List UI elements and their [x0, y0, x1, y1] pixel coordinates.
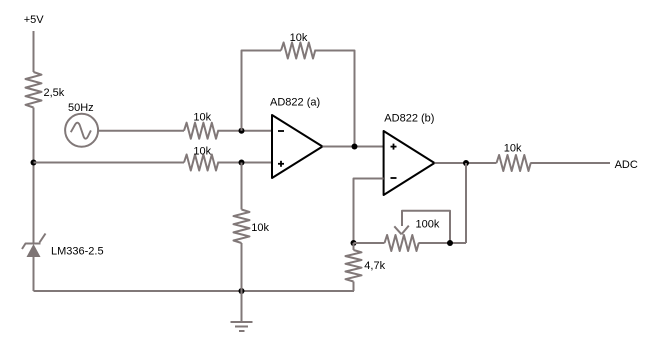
- svg-text:LM336-2.5: LM336-2.5: [51, 245, 104, 257]
- wire left rail: resistor bottom to diode: [33, 108, 35, 243]
- svg-text:10k: 10k: [504, 142, 522, 154]
- svg-text:50Hz: 50Hz: [68, 102, 94, 114]
- svg-text:2,5k: 2,5k: [44, 87, 65, 99]
- wire R2 to op-amp minus input: [217, 130, 272, 132]
- node junction left rail / plus-input wire: [31, 160, 37, 166]
- op-amp U1a minus input symbol: [278, 130, 284, 132]
- op-amp U1b triangle: [384, 131, 435, 195]
- svg-text:10k: 10k: [193, 112, 211, 124]
- wire pot right side: [418, 242, 466, 244]
- wire R7 top stub: [353, 243, 355, 250]
- wire pot wiper to right terminal (box): [402, 211, 450, 243]
- wire R8 to ADC: [530, 162, 610, 164]
- wire U1a output to U1b plus input: [323, 146, 384, 148]
- node junction minus input / feedback: [239, 128, 245, 134]
- svg-text:AD822 (b): AD822 (b): [384, 113, 434, 125]
- potentiometer R6 100k (horizontal): [385, 235, 419, 251]
- op-amp U1a triangle: [272, 115, 323, 178]
- wire node to pot: [354, 242, 385, 244]
- op-amp U1b minus input symbol: [391, 177, 397, 179]
- wire U1b minus input L: [354, 179, 384, 244]
- node junction pot right / wiper: [447, 240, 453, 246]
- node junction U1a output / feedback: [352, 144, 358, 150]
- wire ground bus: [34, 290, 355, 292]
- resistor R3 10k (bottom input, horizontal): [184, 155, 218, 171]
- ground symbol: [231, 291, 253, 331]
- node junction output / feedback down: [463, 160, 469, 166]
- wire feedback left vertical: [242, 51, 282, 131]
- wire source to R2: [98, 130, 184, 132]
- svg-text:4,7k: 4,7k: [364, 260, 385, 272]
- wire R7 bottom to ground bus: [353, 282, 355, 292]
- wire R4 top: [241, 163, 243, 210]
- node junction minus-feedback / pot / 4,7k: [351, 240, 357, 246]
- wire feedback down from output: [465, 163, 467, 243]
- op-amp U1b plus input symbol: [391, 144, 397, 150]
- resistor R5 10k (feedback, horizontal): [281, 43, 315, 59]
- svg-text:+5V: +5V: [24, 14, 45, 26]
- node ground junction: [239, 288, 245, 294]
- node junction plus input / R4: [239, 160, 245, 166]
- source V1 sine symbol: [71, 123, 91, 139]
- resistor R7 4,7k (vertical): [346, 250, 362, 281]
- svg-text:10k: 10k: [251, 222, 269, 234]
- wire plus-input rail: [34, 162, 185, 164]
- wire left rail: diode to bottom corner: [33, 257, 35, 291]
- resistor R8 10k (output, horizontal): [497, 155, 531, 171]
- wire R3 to op-amp plus input: [217, 162, 272, 164]
- wire +5V rail down to resistor: [33, 31, 35, 72]
- svg-text:AD822 (a): AD822 (a): [270, 97, 320, 109]
- svg-text:10k: 10k: [290, 32, 308, 44]
- svg-text:ADC: ADC: [615, 159, 638, 171]
- resistor R2 10k (top input, horizontal): [184, 123, 218, 139]
- op-amp U1a plus input symbol: [278, 161, 284, 167]
- svg-text:10k: 10k: [193, 145, 211, 157]
- wire U1b output to R8: [435, 162, 497, 164]
- source V1 50Hz circle: [65, 114, 98, 147]
- resistor R4 10k (vertical to ground): [234, 210, 250, 243]
- resistor R1 2,5k (vertical): [26, 72, 42, 108]
- wire R4 bottom to ground bus: [241, 243, 243, 291]
- diode D1 LM336-2.5 (zener, pointing up): [22, 234, 46, 258]
- potentiometer wiper arrow: [394, 226, 409, 235]
- wire feedback right vertical: [314, 51, 354, 147]
- svg-text:100k: 100k: [416, 219, 440, 231]
